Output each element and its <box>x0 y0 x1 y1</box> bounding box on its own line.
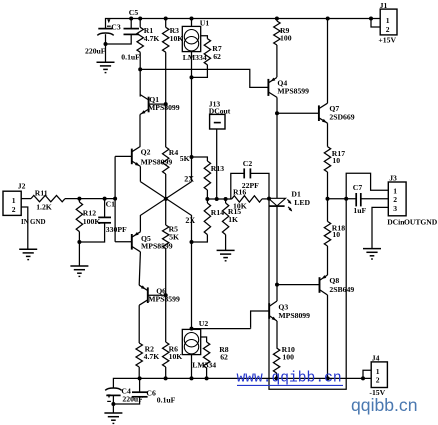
label 2X lower <box>185 216 195 225</box>
svg-text:220uF: 220uF <box>85 47 106 56</box>
svg-text:Q2: Q2 <box>141 148 151 157</box>
wire X diagonal A <box>140 182 191 329</box>
svg-text:J4: J4 <box>372 353 380 362</box>
node X crossing junction <box>164 197 168 201</box>
transistor Q1 <box>140 95 180 115</box>
transistor Q2 <box>132 146 173 166</box>
svg-text:10K: 10K <box>170 34 184 43</box>
resistor R8 <box>201 337 229 378</box>
wire Q1 base <box>149 103 166 105</box>
wire Q7 collector <box>327 19 329 104</box>
wire output row <box>328 198 357 200</box>
svg-text:2SB649: 2SB649 <box>329 285 354 294</box>
svg-text:1.2K: 1.2K <box>36 203 52 212</box>
svg-text:10K: 10K <box>169 352 183 361</box>
svg-text:MPS8599: MPS8599 <box>141 242 173 251</box>
svg-text:C5: C5 <box>129 8 139 17</box>
svg-text:LM334: LM334 <box>183 53 207 62</box>
wire Q7 emitter <box>327 123 329 146</box>
wire Q3 emitter <box>276 321 278 348</box>
svg-text:U1: U1 <box>200 19 210 28</box>
resistor R6 <box>163 295 183 378</box>
resistor R15 <box>222 199 241 250</box>
resistor R5 <box>163 224 180 295</box>
svg-text:+15V: +15V <box>378 35 396 44</box>
label C6 value <box>157 396 176 405</box>
wire LED cathode down <box>276 206 278 285</box>
svg-text:R4: R4 <box>169 148 179 157</box>
wire input column <box>114 156 116 241</box>
svg-text:C7: C7 <box>353 183 363 192</box>
transistor Q3 <box>269 301 310 321</box>
wire Q2 base <box>115 155 132 157</box>
svg-text:qqibb.cn: qqibb.cn <box>351 395 418 415</box>
wire Q4 to LED <box>276 113 278 198</box>
resistor R2 <box>136 343 159 378</box>
connector J4 <box>371 353 387 387</box>
svg-text:www.qqibb.cn: www.qqibb.cn <box>237 370 342 386</box>
label +15V <box>378 35 396 44</box>
transistor Q5 <box>132 232 173 252</box>
resistor R10 <box>273 345 295 378</box>
node U2 top junction <box>190 327 194 331</box>
diode D1 LED <box>268 189 310 211</box>
wire Q2 emitter to X <box>139 166 141 181</box>
node R14 bottom junction <box>190 240 194 244</box>
svg-text:C2: C2 <box>243 159 253 168</box>
resistor R13 <box>192 157 225 199</box>
label -15V <box>369 388 385 397</box>
svg-text:R13: R13 <box>211 164 224 173</box>
wire Q6 base <box>148 294 166 296</box>
wire mid node row <box>207 198 231 200</box>
wire +15V top rail <box>106 19 372 29</box>
svg-text:0.1uF: 0.1uF <box>157 396 176 405</box>
connector J13 DCout <box>209 99 231 129</box>
svg-text:LED: LED <box>294 198 310 207</box>
svg-text:MPS8099: MPS8099 <box>141 157 173 166</box>
transistor Q6 <box>139 285 180 305</box>
svg-text:R11: R11 <box>35 188 48 197</box>
node A junction <box>138 67 142 71</box>
svg-text:DCout: DCout <box>209 107 231 116</box>
svg-text:C3: C3 <box>111 23 121 32</box>
node U1/R7 junction <box>190 75 194 79</box>
resistor R18 <box>324 199 345 275</box>
capacitor C5 <box>106 8 140 44</box>
resistor R17 <box>324 147 345 199</box>
svg-text:MPS8599: MPS8599 <box>277 86 309 95</box>
resistor R14 <box>192 199 225 242</box>
svg-text:U2: U2 <box>199 319 209 328</box>
svg-text:J2: J2 <box>18 182 26 191</box>
svg-text:10K: 10K <box>233 201 247 210</box>
label IN GND <box>21 218 46 226</box>
label C5 value <box>121 53 140 62</box>
svg-text:5K: 5K <box>169 232 179 241</box>
ground under R12 <box>70 266 88 276</box>
svg-text:R14: R14 <box>211 208 224 217</box>
capacitor C7 <box>353 183 389 215</box>
watermark qqibb.cn <box>351 395 418 415</box>
label C1 value <box>106 225 127 234</box>
resistor R9 <box>274 19 292 78</box>
capacitor C1 <box>79 199 115 242</box>
wire J13 pin <box>216 129 218 200</box>
wire Q5 collector <box>139 252 140 285</box>
wire U1 bottom pin <box>191 52 193 182</box>
wire R4-R5 vertical through X <box>165 174 167 225</box>
node C3/C5 junction <box>104 42 108 46</box>
svg-text:2: 2 <box>386 25 390 34</box>
svg-text:0.1uF: 0.1uF <box>121 53 140 62</box>
connector J4 bracket wire <box>363 370 371 378</box>
node Q6 base junction <box>164 293 168 297</box>
ground under J3 <box>363 249 381 259</box>
node Q4 emitter junction <box>275 111 279 115</box>
wire node A to Q4 base <box>140 69 268 87</box>
resistor R11 <box>31 188 115 211</box>
transistor Q7 <box>319 103 355 123</box>
svg-text:GND: GND <box>30 218 46 226</box>
wire Q7 base <box>277 112 319 114</box>
resistor R4 <box>163 104 190 174</box>
op-amp U1 LM334 current source <box>182 19 209 63</box>
svg-text:4.7K: 4.7K <box>144 352 160 361</box>
wire Q8 base <box>277 284 320 286</box>
wire Q4 emitter-collector column <box>276 97 278 113</box>
resistor R12 <box>76 199 100 266</box>
svg-text:DCin: DCin <box>387 217 405 226</box>
wire X diagonal B <box>140 182 191 232</box>
node Q8 base junction <box>275 283 279 287</box>
ground under R15 <box>217 250 235 260</box>
resistor R7 <box>192 36 222 78</box>
svg-text:100K: 100K <box>83 217 101 226</box>
svg-text:10: 10 <box>332 156 340 165</box>
svg-text:2: 2 <box>376 376 380 385</box>
capacitor C3 <box>97 19 121 62</box>
wire feedback column <box>269 173 388 389</box>
svg-text:100: 100 <box>280 34 292 43</box>
svg-text:J1: J1 <box>380 1 388 10</box>
connector J1 bracket wire <box>371 19 380 28</box>
wire Q5 base <box>115 241 132 243</box>
transistor Q4 <box>268 77 309 97</box>
svg-text:10: 10 <box>332 230 340 239</box>
label C4 value <box>122 395 143 404</box>
ground under C4 <box>104 413 122 423</box>
node +15V rail junction dots <box>129 17 373 21</box>
svg-text:J3: J3 <box>389 173 397 182</box>
ground under J2 <box>19 249 37 259</box>
svg-text:330PF: 330PF <box>106 225 127 234</box>
label DCin OUT GND <box>387 217 438 226</box>
node output row junctions <box>326 197 349 201</box>
label 2X upper <box>184 174 194 183</box>
node mid row junctions <box>205 197 227 201</box>
node R13 top junction <box>190 155 194 159</box>
wire U2 top / Q3 base wire <box>192 328 251 330</box>
wire -15V bottom rail <box>113 378 363 388</box>
svg-text:4.7K: 4.7K <box>144 34 160 43</box>
watermark www.qqibb.cn <box>237 370 344 386</box>
transistor Q8 <box>320 275 355 295</box>
svg-text:62: 62 <box>220 353 228 362</box>
connector J3 <box>388 173 406 215</box>
svg-text:3: 3 <box>393 204 397 213</box>
svg-text:2: 2 <box>12 205 16 214</box>
connector J2 <box>3 182 26 216</box>
wire J2 pin1 <box>21 198 31 200</box>
svg-text:C1: C1 <box>106 199 116 208</box>
svg-text:100: 100 <box>282 353 294 362</box>
wire Q6 collector <box>138 305 140 343</box>
svg-text:2X: 2X <box>184 174 194 183</box>
wire Q8 collector <box>327 295 329 378</box>
resistor R3 <box>163 19 184 105</box>
capacitor C4 <box>105 387 131 413</box>
op-amp U2 LM334 current source <box>182 319 216 378</box>
svg-text:2SD669: 2SD669 <box>329 112 354 121</box>
node R12/C1 bottom junction <box>77 240 81 244</box>
wire J3 pin3 to ground <box>372 207 388 248</box>
node R16/C2/feedback junction <box>267 197 271 201</box>
node input junctions <box>77 197 117 201</box>
svg-text:GND: GND <box>420 217 437 226</box>
wire Q3 collector <box>276 285 278 301</box>
node C4/C6 junction <box>111 402 115 406</box>
svg-text:OUT: OUT <box>404 217 420 226</box>
svg-text:C6: C6 <box>146 389 156 398</box>
wire J2 pin2 to ground <box>21 207 28 249</box>
svg-text:5K: 5K <box>180 154 190 163</box>
label C3 value <box>85 47 106 56</box>
capacitor C6 <box>113 378 156 404</box>
connector J1 <box>380 1 397 35</box>
wire Q3 base step <box>251 311 270 328</box>
capacitor C2 <box>231 159 269 199</box>
node Q1 base junction <box>164 102 168 106</box>
svg-text:22PF: 22PF <box>242 181 259 190</box>
svg-text:1uF: 1uF <box>353 206 366 215</box>
svg-text:MPS8099: MPS8099 <box>278 311 310 320</box>
wire Q1 emitter <box>139 115 141 147</box>
svg-text:62: 62 <box>213 52 221 61</box>
svg-text:2X: 2X <box>185 216 195 225</box>
resistor R16 <box>232 188 269 211</box>
node -15V rail junction dots <box>138 376 365 380</box>
ground under C3 <box>97 62 115 72</box>
resistor R1 <box>137 19 159 97</box>
svg-text:1K: 1K <box>228 215 238 224</box>
